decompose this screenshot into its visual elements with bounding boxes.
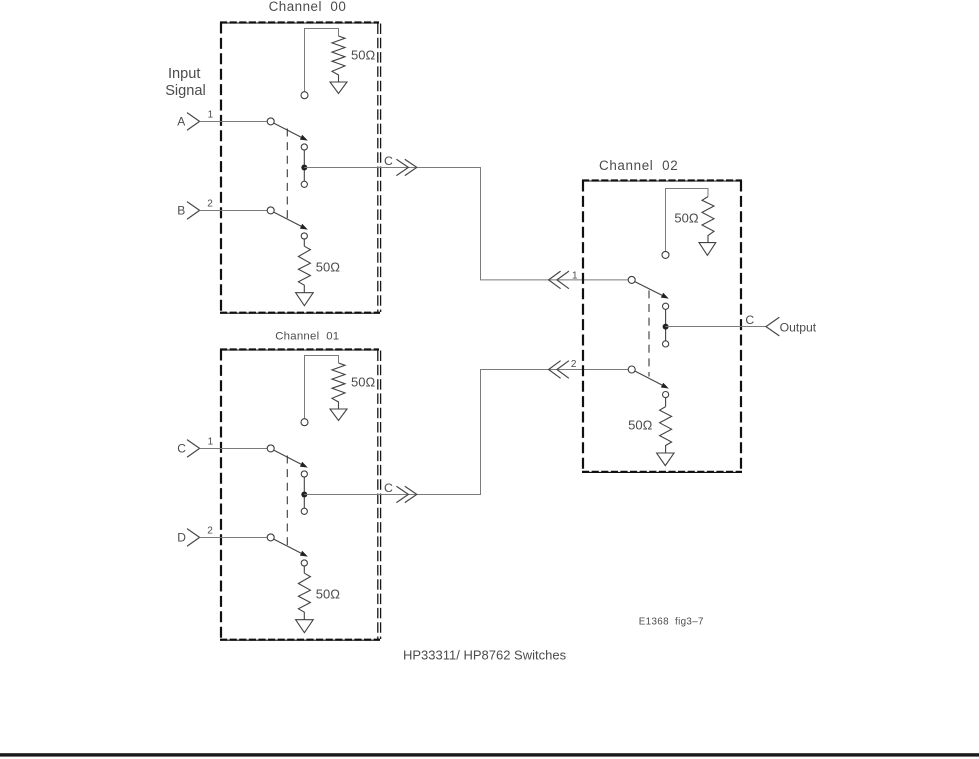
connector chevrons ch01 C xyxy=(396,486,408,502)
svg-text:Output: Output xyxy=(780,320,817,334)
channel 02 box left border xyxy=(582,181,584,472)
svg-text:50Ω: 50Ω xyxy=(628,417,652,432)
svg-text:D: D xyxy=(177,531,186,545)
wire contacts vertical ch01 xyxy=(303,477,305,508)
contact circle ch02-2 xyxy=(663,392,669,398)
ground ch02 bottom xyxy=(657,453,674,466)
input connector A xyxy=(187,113,200,131)
svg-text:1: 1 xyxy=(208,436,214,447)
svg-text:E1368 fig3–7: E1368 fig3–7 xyxy=(639,617,704,628)
wire ch00 C output to channel02 input 1 xyxy=(304,168,628,280)
ground ch01 bottom xyxy=(296,620,314,633)
ground ch00 bottom xyxy=(296,293,314,306)
contact circle ch00-2 xyxy=(301,233,307,239)
junction dot ch00 C xyxy=(301,165,307,171)
resistor R ch01 top 50ohm xyxy=(332,363,345,409)
channel 00 box right double border xyxy=(377,24,379,313)
switch pole circle ch00-1 xyxy=(267,118,274,125)
resistor R ch02 top 50ohm xyxy=(702,197,714,243)
svg-text:HP33311/ HP8762 Switches: HP33311/ HP8762 Switches xyxy=(403,648,567,663)
wire contact to resistor ch00 xyxy=(303,239,305,246)
svg-text:1: 1 xyxy=(208,109,214,120)
switch lever arrow ch00-1 xyxy=(300,135,308,141)
wire contacts vertical ch02 xyxy=(665,309,667,340)
ground ch02 top xyxy=(699,243,716,256)
switch lever arrow ch02-1 xyxy=(661,293,669,299)
svg-text:2: 2 xyxy=(207,198,213,209)
resistor R ch02 bottom 50ohm xyxy=(660,407,672,453)
contact circle ch01-1 upper xyxy=(301,471,307,477)
wire contact to resistor ch02 xyxy=(665,398,667,407)
wire contacts vertical ch00 xyxy=(303,150,305,181)
svg-text:50Ω: 50Ω xyxy=(316,586,340,601)
switch lever ch01-2 xyxy=(274,539,302,553)
switch pole circle ch02-1 xyxy=(628,276,635,283)
channel 01 box right double border xyxy=(377,351,379,640)
switch gang link ch02 xyxy=(648,290,650,376)
terminal circle ch00 top xyxy=(301,92,308,99)
resistor R ch00 top 50ohm xyxy=(332,36,345,82)
switch pole circle ch00-2 xyxy=(267,207,274,214)
connector chevrons ch00 C xyxy=(396,159,408,175)
wire B to switch xyxy=(200,210,268,212)
svg-text:Input: Input xyxy=(168,66,200,82)
contact circle ch00-1 lower xyxy=(301,181,307,187)
svg-text:B: B xyxy=(177,204,185,218)
contact circle ch01-2 xyxy=(301,560,307,566)
channel 00 box top border xyxy=(220,22,379,24)
wire ch02 C to output xyxy=(666,326,766,328)
svg-text:C: C xyxy=(384,481,393,495)
junction dot ch02 C xyxy=(663,324,669,330)
input connector D xyxy=(187,529,200,547)
switch pole circle ch01-2 xyxy=(267,534,274,541)
channel 01 box left border xyxy=(220,350,222,640)
wire: ch01 termination top xyxy=(305,356,339,419)
channel 00 box bottom border xyxy=(220,312,380,314)
svg-text:Channel 01: Channel 01 xyxy=(275,330,339,342)
channel 01 box top border xyxy=(220,349,379,351)
switch lever arrow ch00-2 xyxy=(300,224,308,230)
connector chevrons ch02 input 2 xyxy=(549,361,561,379)
switch gang link ch01 xyxy=(286,456,288,546)
wire D to switch xyxy=(200,537,268,539)
svg-text:1: 1 xyxy=(572,270,578,281)
contact circle ch02-1 upper xyxy=(663,303,669,309)
svg-text:Channel 02: Channel 02 xyxy=(599,158,678,173)
channel 02 box right border xyxy=(740,181,742,472)
svg-text:C: C xyxy=(745,313,754,327)
channel 01 box bottom border xyxy=(220,639,380,641)
ground ch01 top xyxy=(330,409,347,421)
wire ch01 C output to channel02 input 2 xyxy=(304,370,628,495)
svg-text:Channel 00: Channel 00 xyxy=(269,0,347,14)
switch lever ch00-1 xyxy=(274,123,302,137)
svg-text:2: 2 xyxy=(571,359,577,370)
contact circle ch00-1 upper xyxy=(301,144,307,150)
bottom rule xyxy=(0,753,979,756)
switch lever arrow ch02-2 xyxy=(661,383,669,389)
switch pole circle ch02-2 xyxy=(628,366,635,373)
input connector C xyxy=(187,440,200,458)
wire: ch00 termination top xyxy=(305,29,339,92)
contact circle ch01-1 lower xyxy=(301,508,307,514)
wire A to switch xyxy=(200,121,268,123)
channel 00 box left border xyxy=(220,23,222,313)
switch lever ch02-2 xyxy=(635,371,663,385)
switch pole circle ch01-1 xyxy=(267,445,274,452)
connector chevrons ch02 input 1 xyxy=(549,271,561,289)
switch lever arrow ch01-1 xyxy=(300,462,308,468)
channel 02 box bottom border xyxy=(582,471,742,473)
ground ch00 top xyxy=(330,82,347,94)
input connector B xyxy=(187,202,200,220)
terminal circle ch01 top xyxy=(301,419,308,426)
svg-text:C: C xyxy=(384,154,393,168)
wire: ch02 termination top xyxy=(666,189,709,252)
svg-text:C: C xyxy=(177,442,186,456)
switch lever arrow ch01-2 xyxy=(300,551,308,557)
terminal circle ch02 top xyxy=(662,251,669,258)
svg-text:Signal: Signal xyxy=(165,83,206,99)
svg-text:50Ω: 50Ω xyxy=(674,211,698,226)
switch lever ch00-2 xyxy=(274,212,302,226)
switch lever ch02-1 xyxy=(635,282,662,296)
contact circle ch02-1 lower xyxy=(663,341,669,347)
wire contact to resistor ch01 xyxy=(303,566,305,573)
resistor R ch00 bottom 50ohm xyxy=(298,246,310,292)
switch gang link ch00 xyxy=(286,129,288,219)
svg-text:50Ω: 50Ω xyxy=(351,47,375,62)
output connector xyxy=(766,317,779,336)
svg-text:A: A xyxy=(177,115,185,129)
junction dot ch01 C xyxy=(301,492,307,498)
switch lever ch01-1 xyxy=(274,450,302,464)
svg-text:2: 2 xyxy=(207,525,213,536)
svg-text:50Ω: 50Ω xyxy=(316,259,340,274)
resistor R ch01 bottom 50ohm xyxy=(298,573,310,619)
wire C to switch xyxy=(200,448,268,450)
channel 02 box top border xyxy=(582,180,742,182)
svg-text:50Ω: 50Ω xyxy=(351,374,375,389)
